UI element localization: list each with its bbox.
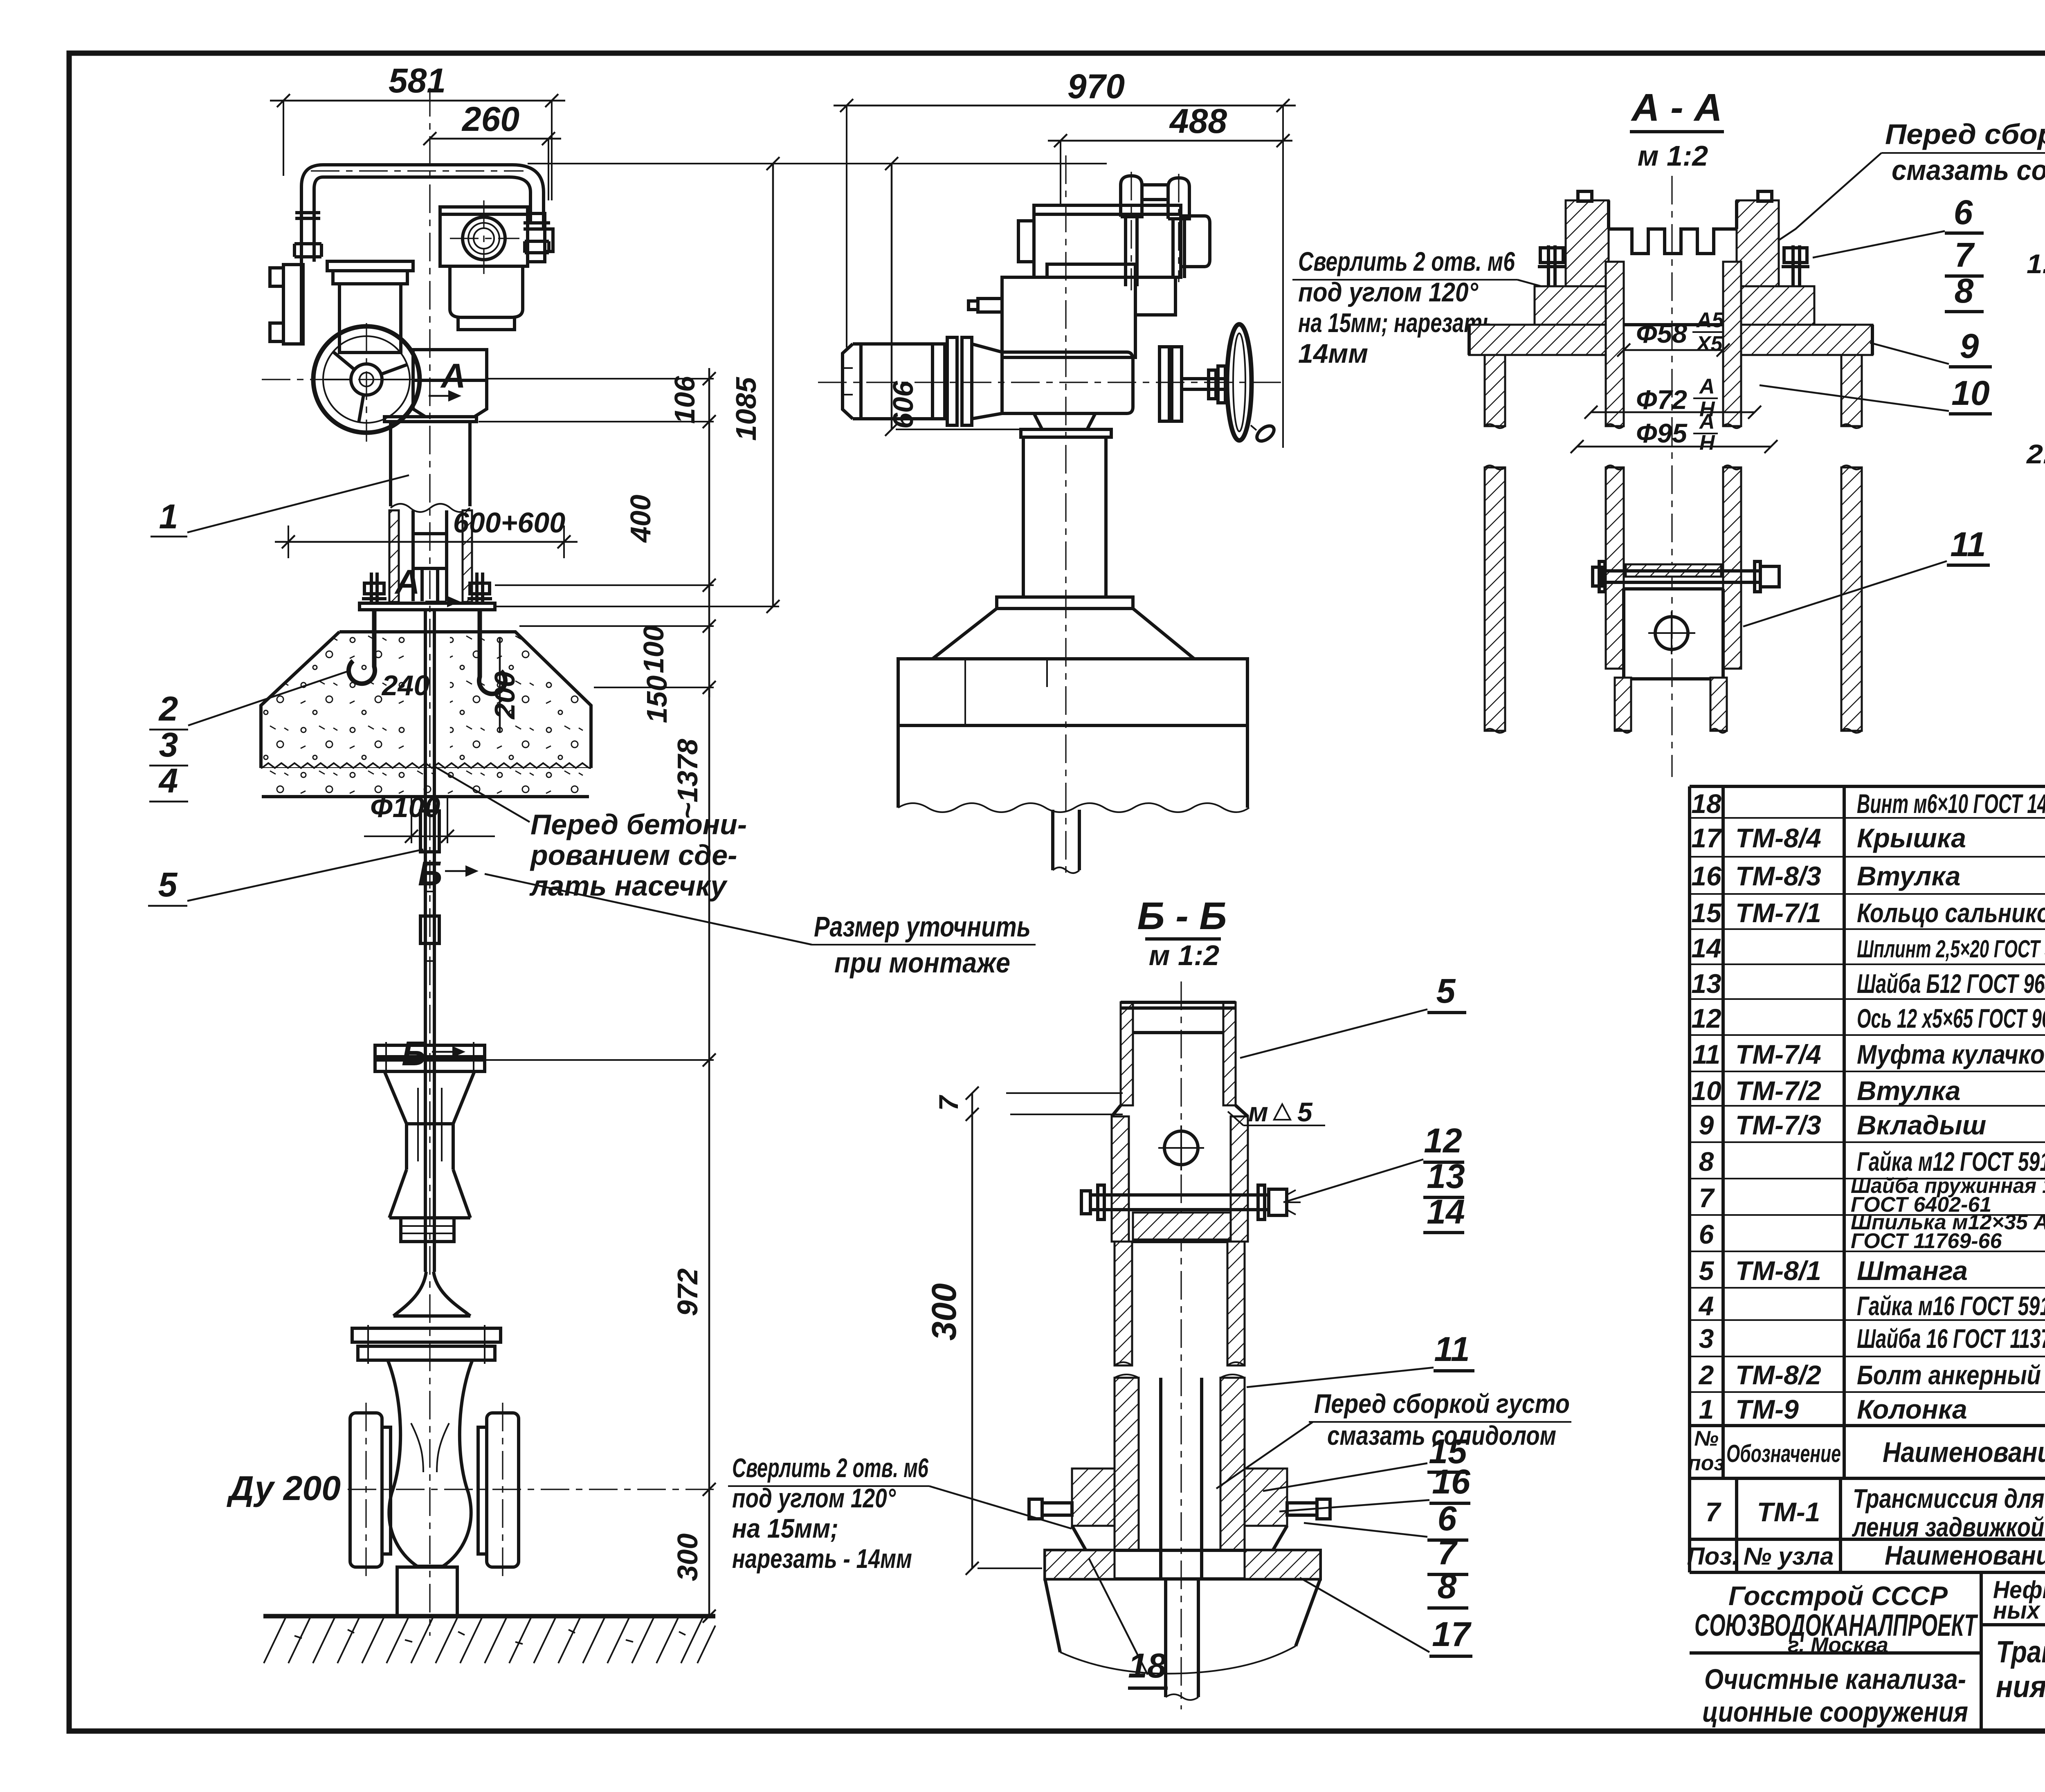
svg-text:2. Монтажный чертеж нефте-: 2. Монтажный чертеж нефте- — [2026, 439, 2045, 469]
transmission rod — [420, 610, 439, 1242]
svg-text:Перед бетони-: Перед бетони- — [530, 808, 747, 840]
column bell housing — [327, 261, 413, 353]
svg-text:7: 7 — [1438, 1533, 1458, 1572]
section arrow A upper — [429, 357, 466, 402]
svg-text:Шайба Б12 ГОСТ 9649-61: Шайба Б12 ГОСТ 9649-61 — [1857, 968, 2045, 999]
title block — [1690, 1572, 2045, 1733]
svg-text:лать насечку: лать насечку — [529, 870, 728, 902]
svg-text:8: 8 — [1438, 1567, 1457, 1606]
second block columns — [1737, 1478, 2045, 1572]
centerline — [1180, 981, 1182, 1709]
dim 7 top — [933, 1087, 1123, 1121]
svg-text:м 1:2: м 1:2 — [1149, 939, 1219, 971]
svg-text:Ф100: Ф100 — [370, 791, 440, 823]
svg-text:200: 200 — [489, 671, 521, 720]
clevis fork — [1112, 1105, 1248, 1242]
svg-text:м: м — [1248, 1097, 1268, 1127]
svg-text:2: 2 — [158, 689, 178, 728]
assembly row — [1706, 1483, 2045, 1542]
svg-text:7: 7 — [1706, 1497, 1722, 1527]
svg-text:581: 581 — [389, 61, 446, 100]
inner tube walls upper — [1606, 262, 1741, 428]
svg-text:Муфта кулачковая: Муфта кулачковая — [1857, 1039, 2045, 1069]
leader 10 — [1760, 374, 1992, 414]
svg-text:606: 606 — [887, 381, 919, 429]
top tube of rod — [1121, 1002, 1236, 1105]
parts table grid — [1690, 786, 2045, 1572]
parts table text — [1687, 788, 2045, 1570]
svg-text:18: 18 — [1128, 1646, 1166, 1685]
bottom stub shaft — [1053, 810, 1079, 873]
svg-text:Х5: Х5 — [1695, 332, 1723, 356]
svg-text:240: 240 — [381, 669, 430, 701]
valve side flanges — [350, 1403, 519, 1579]
leaders 6 7 8 lower — [1304, 1499, 1468, 1608]
svg-text:16: 16 — [1432, 1462, 1471, 1501]
castellated socket profile — [1609, 229, 1737, 254]
position leader 5 — [148, 849, 423, 906]
note pered sborkoy (lower) — [1216, 1388, 1571, 1489]
svg-text:1. Электропривод типа ЭПВ-30: 1. Электропривод типа ЭПВ-30 — [2027, 249, 2045, 279]
dim 300 — [925, 1114, 1042, 1575]
svg-text:ТМ-7/3: ТМ-7/3 — [1735, 1110, 1821, 1140]
svg-text:5: 5 — [1436, 972, 1456, 1010]
svg-text:Перед сборкой густо: Перед сборкой густо — [1314, 1388, 1570, 1419]
leader 17 — [1300, 1578, 1472, 1656]
svg-text:Б - Б: Б - Б — [1137, 894, 1227, 938]
weld mark m5 — [1228, 1097, 1325, 1127]
svg-text:Очистные канализа-: Очистные канализа- — [1704, 1663, 1966, 1695]
svg-text:10: 10 — [1691, 1076, 1721, 1106]
svg-text:13: 13 — [1427, 1157, 1465, 1195]
wall bracket — [270, 265, 303, 344]
svg-text:Н: Н — [1699, 431, 1715, 455]
svg-text:Вкладыш: Вкладыш — [1857, 1110, 1986, 1140]
svg-text:ГОСТ 11769-66: ГОСТ 11769-66 — [1851, 1229, 2002, 1253]
svg-text:970: 970 — [1067, 67, 1125, 106]
svg-text:ТМ-8/1: ТМ-8/1 — [1735, 1255, 1821, 1286]
bottom flange — [1045, 1550, 1320, 1579]
position leader 1 — [151, 475, 409, 537]
svg-text:Гайка м12 ГОСТ 5915-62: Гайка м12 ГОСТ 5915-62 — [1857, 1146, 2045, 1177]
actuator mid housing — [969, 264, 1175, 357]
svg-text:№: № — [1694, 1427, 1719, 1451]
column cylinder — [384, 417, 476, 602]
svg-text:Наименование: Наименование — [1885, 1540, 2045, 1570]
svg-text:300: 300 — [925, 1283, 963, 1341]
valve support block — [397, 1567, 457, 1616]
leader 15 — [1263, 1432, 1468, 1491]
flange pack left — [947, 337, 1002, 425]
lower tube walls — [1115, 1374, 1245, 1579]
svg-text:Сверлить 2 отв. м6: Сверлить 2 отв. м6 — [732, 1453, 929, 1483]
svg-text:Сверлить 2 отв. м6: Сверлить 2 отв. м6 — [1298, 246, 1515, 276]
svg-text:150: 150 — [641, 676, 673, 723]
svg-text:Ду 200: Ду 200 — [227, 1469, 341, 1507]
svg-text:5: 5 — [1699, 1255, 1715, 1286]
svg-text:Винт м6×10 ГОСТ 1476-64: Винт м6×10 ГОСТ 1476-64 — [1857, 788, 2045, 819]
svg-text:А5: А5 — [1696, 308, 1724, 332]
svg-text:А - А: А - А — [1631, 86, 1722, 129]
second header row — [1687, 1540, 2045, 1570]
svg-text:7: 7 — [933, 1094, 964, 1111]
svg-text:на 15мм;: на 15мм; — [732, 1513, 838, 1543]
bonnet flange stack — [352, 1325, 501, 1364]
svg-text:А: А — [1699, 410, 1715, 433]
note sverlit (upper) — [1292, 246, 1559, 368]
Ду 200 label — [227, 1469, 714, 1507]
bottom shaft — [1166, 1579, 1198, 1700]
svg-text:16: 16 — [1691, 861, 1722, 891]
spec header row — [1688, 1426, 2045, 1477]
concrete foundation — [261, 632, 591, 768]
svg-text:6: 6 — [1699, 1219, 1715, 1249]
svg-text:11: 11 — [1950, 525, 1986, 564]
right flange pack — [1160, 347, 1182, 421]
anchor bolt J hooks — [349, 611, 506, 694]
svg-text:ТМ-8/2: ТМ-8/2 — [1735, 1360, 1821, 1390]
svg-text:ТМ-7/2: ТМ-7/2 — [1735, 1076, 1821, 1106]
svg-text:106: 106 — [669, 376, 701, 424]
lower inner tube walls — [1606, 465, 1741, 669]
svg-text:г. Москва: г. Москва — [1788, 1633, 1888, 1657]
side studs with nuts — [1535, 245, 1814, 325]
svg-text:Кольцо сальниковое: Кольцо сальниковое — [1857, 898, 2045, 928]
dim f72 — [1584, 375, 1761, 421]
motor — [843, 344, 945, 419]
conduit elbows on top — [1121, 172, 1189, 290]
svg-text:ния задвижкой Ду 200.: ния задвижкой Ду 200. — [1996, 1669, 2045, 1704]
coupling flange pair — [375, 1042, 485, 1075]
lower coupling block — [401, 1218, 454, 1242]
title — [1630, 86, 1724, 172]
note pered sborkoy — [1764, 118, 2045, 250]
ground line and hatch — [263, 1616, 715, 1663]
svg-text:Болт анкерный: Болт анкерный — [1857, 1360, 2041, 1390]
dim 260 — [423, 100, 561, 200]
dim 240 / 200 inside concrete — [381, 638, 521, 732]
svg-text:9: 9 — [1960, 327, 1979, 365]
dim 606 — [885, 157, 1022, 436]
lower chain ~1378 / 972 / 300 — [485, 687, 716, 1623]
right dimension chain 106/400/100/150 — [479, 368, 716, 723]
dim 600+600 — [275, 507, 578, 558]
svg-text:А: А — [1699, 375, 1715, 398]
svg-text:смазать солидолом: смазать солидолом — [1892, 154, 2045, 186]
svg-text:Поз.: Поз. — [1687, 1543, 1739, 1570]
svg-text:4: 4 — [158, 761, 178, 800]
bearing housing top walls — [1566, 200, 1779, 286]
gear case right of wheel — [413, 350, 487, 417]
svg-text:Гайка м16 ГОСТ 5915-62: Гайка м16 ГОСТ 5915-62 — [1857, 1291, 2045, 1321]
svg-text:2: 2 — [1698, 1360, 1714, 1390]
svg-text:Втулка: Втулка — [1857, 1076, 1960, 1106]
svg-text:12: 12 — [1691, 1003, 1721, 1033]
tank body — [898, 659, 1249, 812]
centerlines — [818, 155, 1286, 875]
svg-text:Перед сборкой густо: Перед сборкой густо — [1885, 118, 2045, 150]
svg-text:ных элементов на расход воды 1: ных элементов на расход воды 165 л/сек. — [1993, 1597, 2045, 1624]
leader 18 — [1089, 1558, 1168, 1688]
dim 581 — [270, 61, 565, 200]
bottom tube — [1615, 678, 1727, 733]
valve bonnet funnel — [393, 1242, 470, 1316]
actuator gear housing — [450, 266, 523, 330]
dim 970 — [834, 67, 1296, 448]
svg-text:3: 3 — [1699, 1323, 1714, 1354]
svg-text:5: 5 — [1297, 1097, 1313, 1127]
svg-text:Обозначение: Обозначение — [1726, 1440, 1841, 1467]
section arrow Б upper — [418, 854, 479, 893]
note before concreting — [434, 766, 747, 902]
svg-text:260: 260 — [461, 100, 519, 138]
svg-text:11: 11 — [1434, 1330, 1470, 1368]
leader 6 7 8 — [1813, 193, 1984, 312]
svg-text:Шплинт 2,5×20 ГОСТ 397-64: Шплинт 2,5×20 ГОСТ 397-64 — [1857, 935, 2045, 963]
svg-text:А: А — [394, 563, 420, 601]
svg-text:488: 488 — [1169, 102, 1227, 140]
leader 16 — [1279, 1462, 1471, 1511]
actuator top box — [1018, 205, 1210, 277]
hanger walls below flange — [1485, 355, 1862, 428]
svg-text:м 1:2: м 1:2 — [1638, 140, 1708, 172]
goblet transition — [384, 1071, 474, 1218]
svg-text:14мм: 14мм — [1298, 338, 1368, 368]
leader 9 — [1870, 327, 1992, 367]
svg-text:5: 5 — [158, 865, 178, 904]
anchor plate and bolts — [360, 573, 495, 610]
svg-text:9: 9 — [1699, 1110, 1714, 1140]
svg-text:Трансмиссия для управле-: Трансмиссия для управле- — [1996, 1635, 2045, 1669]
svg-text:18: 18 — [1691, 788, 1721, 819]
svg-text:ционные сооружения: ционные сооружения — [1702, 1696, 1968, 1728]
svg-text:Б: Б — [418, 854, 442, 893]
svg-text:под углом 120°: под углом 120° — [1298, 277, 1479, 307]
svg-text:4: 4 — [1698, 1291, 1714, 1321]
svg-text:972: 972 — [672, 1269, 703, 1316]
svg-text:Штанга: Штанга — [1857, 1255, 1968, 1286]
svg-text:ТМ-7/4: ТМ-7/4 — [1735, 1039, 1821, 1069]
svg-text:Колонка: Колонка — [1857, 1394, 1967, 1424]
svg-text:1: 1 — [1699, 1394, 1714, 1424]
svg-text:14: 14 — [1427, 1192, 1465, 1231]
valve body — [384, 1360, 476, 1566]
section arrow A lower — [394, 563, 460, 607]
svg-text:рованием сде-: рованием сде- — [530, 839, 737, 871]
svg-text:поз: поз — [1688, 1451, 1725, 1475]
svg-text:Втулка: Втулка — [1857, 861, 1960, 891]
svg-text:при монтаже: при монтаже — [834, 947, 1010, 979]
conduit pipe loop — [294, 165, 550, 344]
top small bolts — [1578, 191, 1772, 201]
svg-text:Наименование: Наименование — [1883, 1436, 2045, 1468]
svg-text:7: 7 — [1955, 236, 1975, 274]
Б-Б section title — [1137, 894, 1227, 971]
dim 1085 — [495, 157, 1107, 613]
leader 11 — [1743, 525, 1990, 627]
svg-text:10: 10 — [1951, 374, 1989, 412]
note sverlit (lower left) — [728, 1453, 1072, 1574]
shaft and handwheel — [1182, 324, 1277, 444]
svg-text:Ф58: Ф58 — [1636, 318, 1687, 348]
svg-text:ТМ-9: ТМ-9 — [1735, 1394, 1799, 1424]
svg-text:ТМ-7/1: ТМ-7/1 — [1735, 898, 1821, 928]
leaders 12 13 14 — [1283, 1121, 1465, 1233]
svg-text:15: 15 — [1691, 898, 1722, 928]
svg-text:ТМ-1: ТМ-1 — [1757, 1497, 1820, 1527]
svg-text:Трансмиссия для управ-: Трансмиссия для управ- — [1853, 1483, 2045, 1514]
section arrow Б lower — [402, 1034, 465, 1073]
limit switch box — [440, 200, 553, 274]
sand base band — [262, 763, 589, 797]
svg-text:нарезать - 14мм: нарезать - 14мм — [732, 1543, 912, 1574]
leader 5 — [1240, 972, 1466, 1058]
svg-text:Б: Б — [402, 1034, 426, 1073]
svg-text:12: 12 — [1424, 1121, 1462, 1160]
svg-text:Шайба 16 ГОСТ 11371-65: Шайба 16 ГОСТ 11371-65 — [1857, 1323, 2045, 1354]
svg-text:14: 14 — [1691, 933, 1721, 963]
svg-text:300: 300 — [672, 1534, 703, 1581]
svg-text:600+600: 600+600 — [453, 507, 566, 539]
mid tube walls — [1115, 1242, 1245, 1365]
svg-text:~1378: ~1378 — [672, 739, 703, 820]
note razmer utochnit — [485, 874, 1036, 979]
svg-text:100: 100 — [638, 626, 670, 674]
cam coupling in section — [1593, 561, 1779, 679]
svg-text:ления задвижкой Ду 200: ления задвижкой Ду 200 — [1852, 1512, 2045, 1542]
svg-text:6: 6 — [1438, 1499, 1457, 1538]
column lines (main spec rows) — [1723, 786, 2045, 1426]
svg-text:Ф72: Ф72 — [1636, 384, 1687, 415]
column below actuator — [997, 429, 1133, 609]
svg-text:6: 6 — [1954, 193, 1973, 231]
position leaders 2 3 4 — [149, 671, 350, 802]
svg-text:Крышка: Крышка — [1857, 823, 1966, 853]
dim 488 — [1048, 102, 1292, 207]
svg-text:№ узла: № узла — [1744, 1543, 1834, 1570]
svg-text:1: 1 — [159, 497, 178, 536]
bell base — [933, 609, 1194, 659]
outer — [1690, 786, 2045, 1572]
svg-text:17: 17 — [1432, 1615, 1472, 1653]
centerline — [1671, 176, 1672, 777]
svg-text:ТМ-8/4: ТМ-8/4 — [1735, 823, 1821, 853]
big flange plate — [1469, 325, 1872, 355]
svg-text:Госстрой СССР: Госстрой СССР — [1728, 1581, 1948, 1611]
row lines — [1690, 818, 2045, 1392]
pin bolt — [1081, 1185, 1301, 1219]
svg-text:под углом 120°: под углом 120° — [732, 1483, 896, 1513]
svg-text:7: 7 — [1699, 1183, 1715, 1213]
svg-text:Ф95: Ф95 — [1636, 418, 1688, 448]
svg-text:ТМ-8/3: ТМ-8/3 — [1735, 861, 1821, 891]
dim f58 — [1617, 308, 1730, 357]
handwheel — [262, 323, 434, 442]
insert block below pin — [1133, 1213, 1231, 1240]
svg-text:11: 11 — [1692, 1039, 1721, 1069]
dim f95 — [1571, 410, 1778, 455]
lower outer walls — [1485, 465, 1862, 733]
svg-text:3: 3 — [159, 725, 178, 764]
svg-text:Ось 12 х5×65 ГОСТ 9650-61: Ось 12 х5×65 ГОСТ 9650-61 — [1857, 1003, 2045, 1033]
svg-text:Размер уточнить: Размер уточнить — [814, 911, 1031, 943]
svg-text:17: 17 — [1691, 823, 1723, 853]
svg-text:на 15мм; нарезать: на 15мм; нарезать — [1298, 308, 1494, 338]
svg-text:А: А — [440, 357, 466, 395]
dim Ф100 — [364, 791, 495, 843]
svg-text:400: 400 — [625, 495, 656, 543]
packing gland — [1029, 1469, 1330, 1550]
central gear body — [1002, 352, 1133, 429]
leader 11 — [1247, 1330, 1474, 1387]
svg-text:1085: 1085 — [730, 377, 762, 441]
bell skirt — [1045, 1579, 1320, 1674]
centerline column axis — [429, 88, 430, 1636]
svg-text:13: 13 — [1691, 968, 1721, 999]
svg-text:8: 8 — [1955, 272, 1974, 310]
svg-text:8: 8 — [1699, 1146, 1714, 1177]
